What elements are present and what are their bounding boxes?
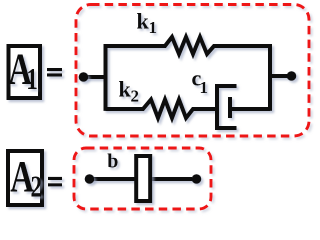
svg-text:1: 1 xyxy=(200,78,209,97)
svg-text:1: 1 xyxy=(26,62,38,96)
svg-text:2: 2 xyxy=(30,169,42,203)
svg-text:1: 1 xyxy=(149,18,158,37)
svg-text:b: b xyxy=(107,150,118,172)
svg-text:2: 2 xyxy=(131,87,140,106)
